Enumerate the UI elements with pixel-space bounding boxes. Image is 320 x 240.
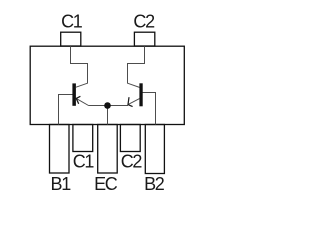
svg-text:B2: B2 [144,174,165,194]
svg-text:B1: B1 [50,174,71,194]
svg-text:C2: C2 [121,152,143,172]
svg-text:C1: C1 [73,152,95,172]
svg-text:C2: C2 [133,11,155,31]
svg-text:C1: C1 [61,11,83,31]
svg-text:EC: EC [94,174,118,194]
